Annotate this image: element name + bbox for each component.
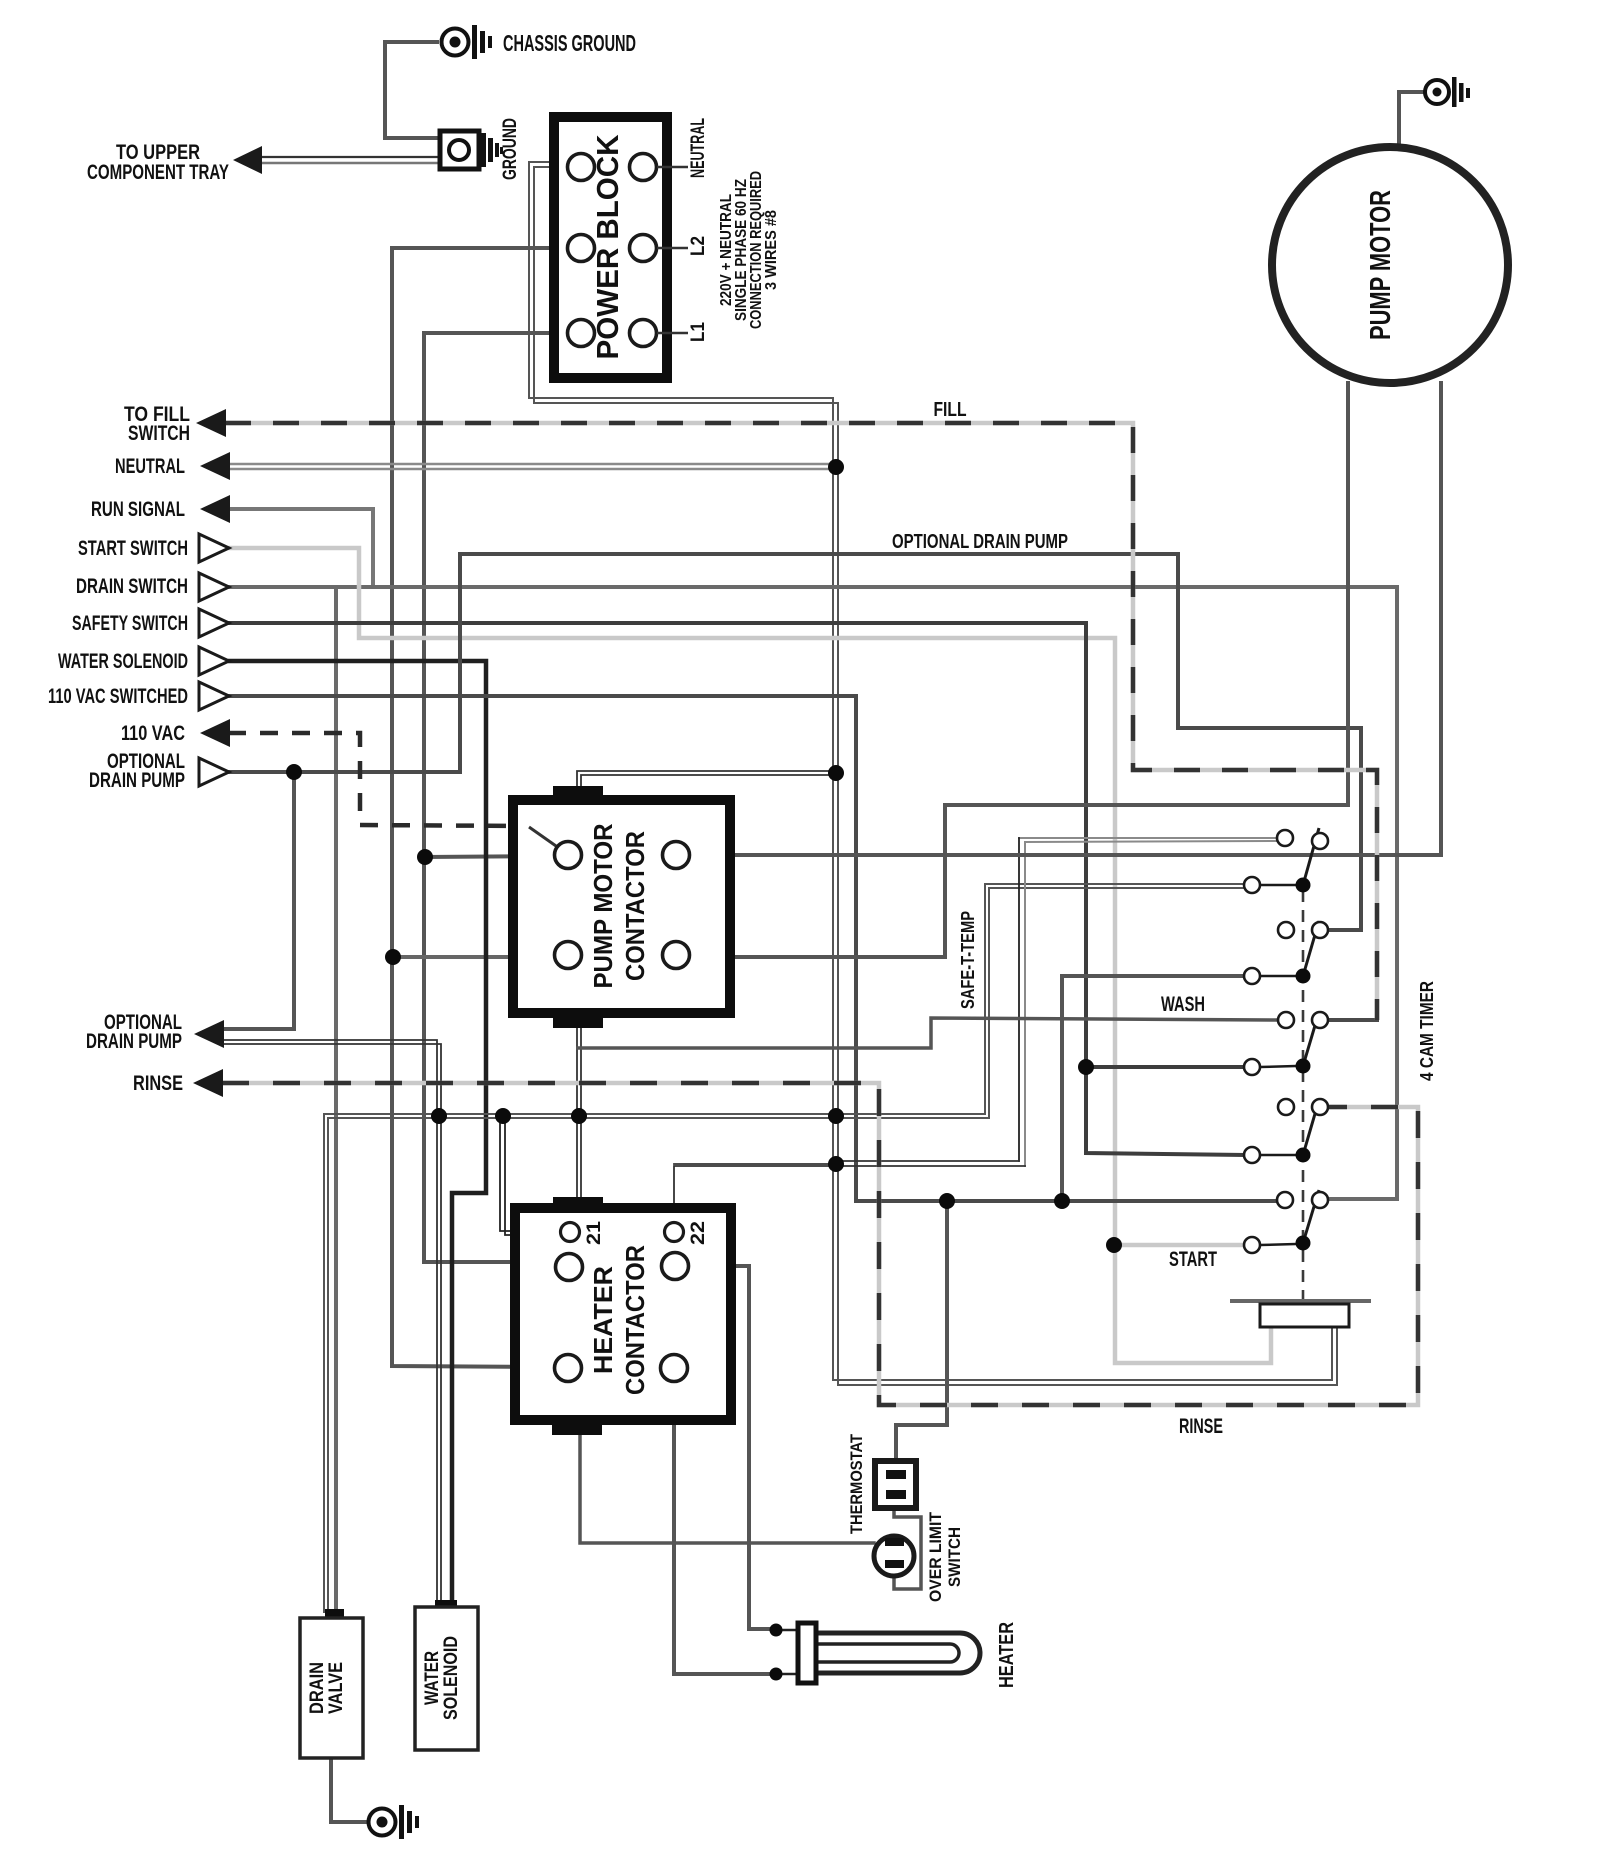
svg-text:CONTACTOR: CONTACTOR	[620, 831, 650, 981]
svg-text:VALVE: VALVE	[326, 1662, 347, 1714]
svg-text:PUMP MOTOR: PUMP MOTOR	[588, 823, 618, 988]
svg-text:WATER SOLENOID: WATER SOLENOID	[58, 650, 188, 673]
svg-text:FILL: FILL	[934, 399, 967, 421]
svg-text:WATER: WATER	[422, 1651, 443, 1705]
svg-text:SWITCH: SWITCH	[128, 422, 190, 445]
svg-text:4 CAM TIMER: 4 CAM TIMER	[1417, 981, 1437, 1081]
svg-text:NEUTRAL: NEUTRAL	[688, 118, 709, 178]
svg-text:START SWITCH: START SWITCH	[78, 537, 188, 560]
svg-text:COMPONENT TRAY: COMPONENT TRAY	[87, 161, 229, 184]
svg-text:DRAIN PUMP: DRAIN PUMP	[86, 1030, 182, 1053]
svg-text:DRAIN: DRAIN	[307, 1662, 328, 1714]
svg-text:OPTIONAL DRAIN PUMP: OPTIONAL DRAIN PUMP	[892, 531, 1068, 553]
svg-text:CONTACTOR: CONTACTOR	[620, 1245, 650, 1395]
svg-text:HEATER: HEATER	[996, 1622, 1018, 1688]
svg-text:SOLENOID: SOLENOID	[441, 1636, 462, 1720]
svg-text:RUN SIGNAL: RUN SIGNAL	[91, 498, 185, 521]
svg-text:GROUND: GROUND	[500, 118, 521, 180]
svg-text:WASH: WASH	[1161, 993, 1205, 1016]
svg-text:3 WIRES #8: 3 WIRES #8	[763, 210, 780, 290]
svg-text:110 VAC: 110 VAC	[121, 722, 185, 745]
svg-text:PUMP MOTOR: PUMP MOTOR	[1365, 190, 1397, 340]
svg-text:DRAIN PUMP: DRAIN PUMP	[89, 769, 185, 792]
svg-text:DRAIN SWITCH: DRAIN SWITCH	[76, 575, 188, 598]
svg-text:SAFETY SWITCH: SAFETY SWITCH	[72, 612, 188, 635]
svg-text:L1: L1	[688, 322, 709, 342]
svg-text:22: 22	[688, 1221, 709, 1245]
svg-text:HEATER: HEATER	[588, 1266, 618, 1374]
svg-text:POWER BLOCK: POWER BLOCK	[590, 134, 625, 360]
svg-text:21: 21	[584, 1221, 605, 1245]
svg-text:SAFE-T-TEMP: SAFE-T-TEMP	[958, 911, 978, 1009]
svg-text:110 VAC SWITCHED: 110 VAC SWITCHED	[48, 685, 188, 708]
svg-text:SWITCH: SWITCH	[945, 1527, 964, 1587]
svg-text:NEUTRAL: NEUTRAL	[115, 455, 185, 478]
svg-text:THERMOSTAT: THERMOSTAT	[847, 1433, 866, 1534]
svg-text:L2: L2	[688, 236, 709, 256]
svg-text:OVER LIMIT: OVER LIMIT	[926, 1511, 945, 1602]
svg-text:CHASSIS GROUND: CHASSIS GROUND	[503, 30, 636, 56]
svg-text:RINSE: RINSE	[1179, 1415, 1223, 1438]
svg-text:START: START	[1169, 1248, 1217, 1271]
svg-text:RINSE: RINSE	[133, 1072, 183, 1095]
